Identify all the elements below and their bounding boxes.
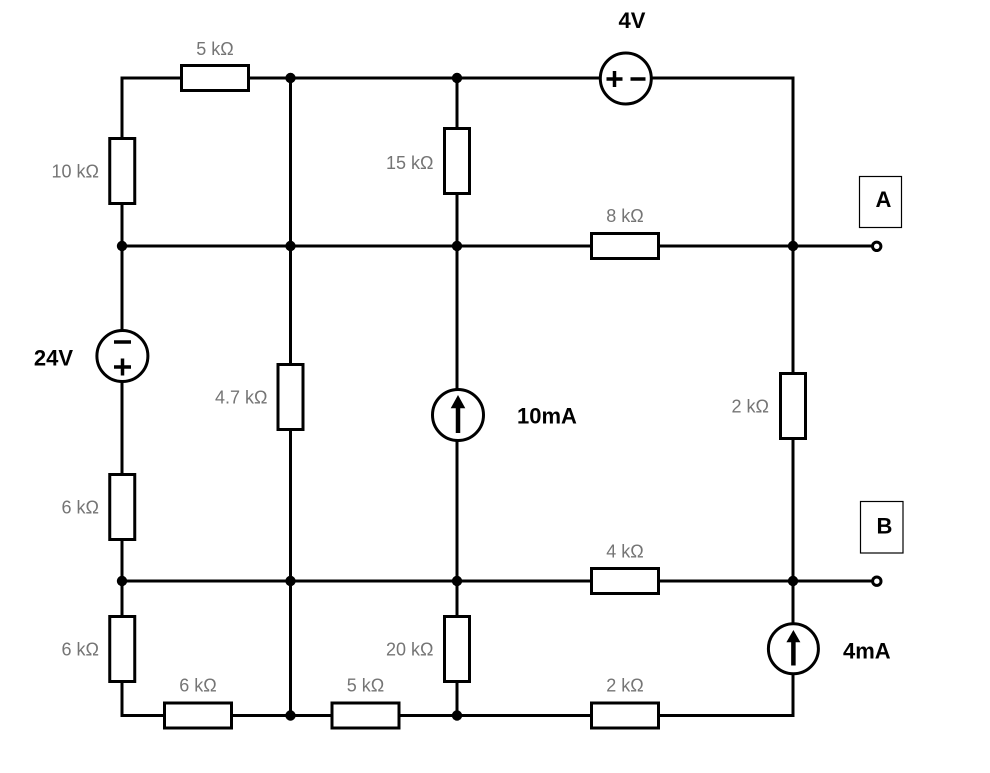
resistor 2k bottom horizontal (592, 676, 659, 729)
node junction row3-x2 (285, 576, 295, 586)
resistor 8k (592, 206, 659, 259)
resistor 2k right (732, 374, 806, 439)
svg-text:24V: 24V (34, 346, 73, 371)
svg-text:A: A (876, 187, 892, 212)
current source 10mA (433, 390, 578, 441)
wire row2 horizontal to terminal A (122, 245, 871, 248)
resistor 4k (592, 542, 659, 594)
current source 4mA (768, 624, 890, 674)
svg-text:8 kΩ: 8 kΩ (606, 206, 643, 226)
svg-text:4V: 4V (619, 8, 646, 33)
node junction row3-x1 (117, 576, 127, 586)
resistor 10k left (52, 139, 135, 204)
wire second vertical (289, 78, 292, 716)
node junction top-x3 (452, 73, 462, 83)
terminal A (873, 242, 881, 250)
node junction row2-x2 (285, 241, 295, 251)
svg-text:6 kΩ: 6 kΩ (62, 498, 99, 518)
svg-text:15 kΩ: 15 kΩ (386, 153, 433, 173)
svg-text:6 kΩ: 6 kΩ (179, 676, 216, 696)
wire top horizontal (122, 77, 793, 80)
resistor 6k lower-left (62, 617, 135, 682)
svg-text:4.7 kΩ: 4.7 kΩ (215, 388, 267, 408)
node A label box (860, 177, 902, 228)
svg-text:B: B (877, 514, 893, 539)
svg-text:5 kΩ: 5 kΩ (196, 39, 233, 59)
resistor 15k (386, 129, 469, 194)
wire bottom horizontal (122, 714, 793, 717)
node junction bottom-x3 (452, 710, 462, 720)
node junction row2-x4 (788, 241, 798, 251)
voltage source 4V (600, 8, 651, 104)
wire third vertical (456, 78, 459, 716)
wire left vertical (121, 78, 124, 716)
wire row3 horizontal to terminal B (122, 580, 871, 583)
node B label box (861, 502, 904, 554)
voltage source 24V (34, 331, 148, 382)
resistor 20k (386, 617, 469, 682)
node junction top-x2 (285, 73, 295, 83)
node junction row2-x3 (452, 241, 462, 251)
svg-text:20 kΩ: 20 kΩ (386, 640, 433, 660)
node junction bottom-x2 (285, 710, 295, 720)
resistor 4.7k (215, 365, 303, 430)
node junction row3-x4 (788, 576, 798, 586)
svg-text:6 kΩ: 6 kΩ (62, 640, 99, 660)
svg-text:5 kΩ: 5 kΩ (347, 676, 384, 696)
resistor 5k bottom horizontal (332, 676, 399, 729)
svg-text:4 kΩ: 4 kΩ (606, 542, 643, 562)
wire right vertical (792, 78, 795, 716)
node junction row3-x3 (452, 576, 462, 586)
resistor 6k upper-left (62, 475, 135, 540)
resistor 6k bottom horizontal (165, 676, 232, 729)
svg-text:10 kΩ: 10 kΩ (52, 162, 99, 182)
svg-text:2 kΩ: 2 kΩ (732, 397, 769, 417)
terminal B (873, 577, 881, 585)
svg-text:4mA: 4mA (843, 639, 891, 664)
svg-text:2 kΩ: 2 kΩ (606, 676, 643, 696)
svg-text:10mA: 10mA (517, 404, 577, 429)
resistor 5k top (182, 39, 249, 91)
node junction row2-x1 (117, 241, 127, 251)
